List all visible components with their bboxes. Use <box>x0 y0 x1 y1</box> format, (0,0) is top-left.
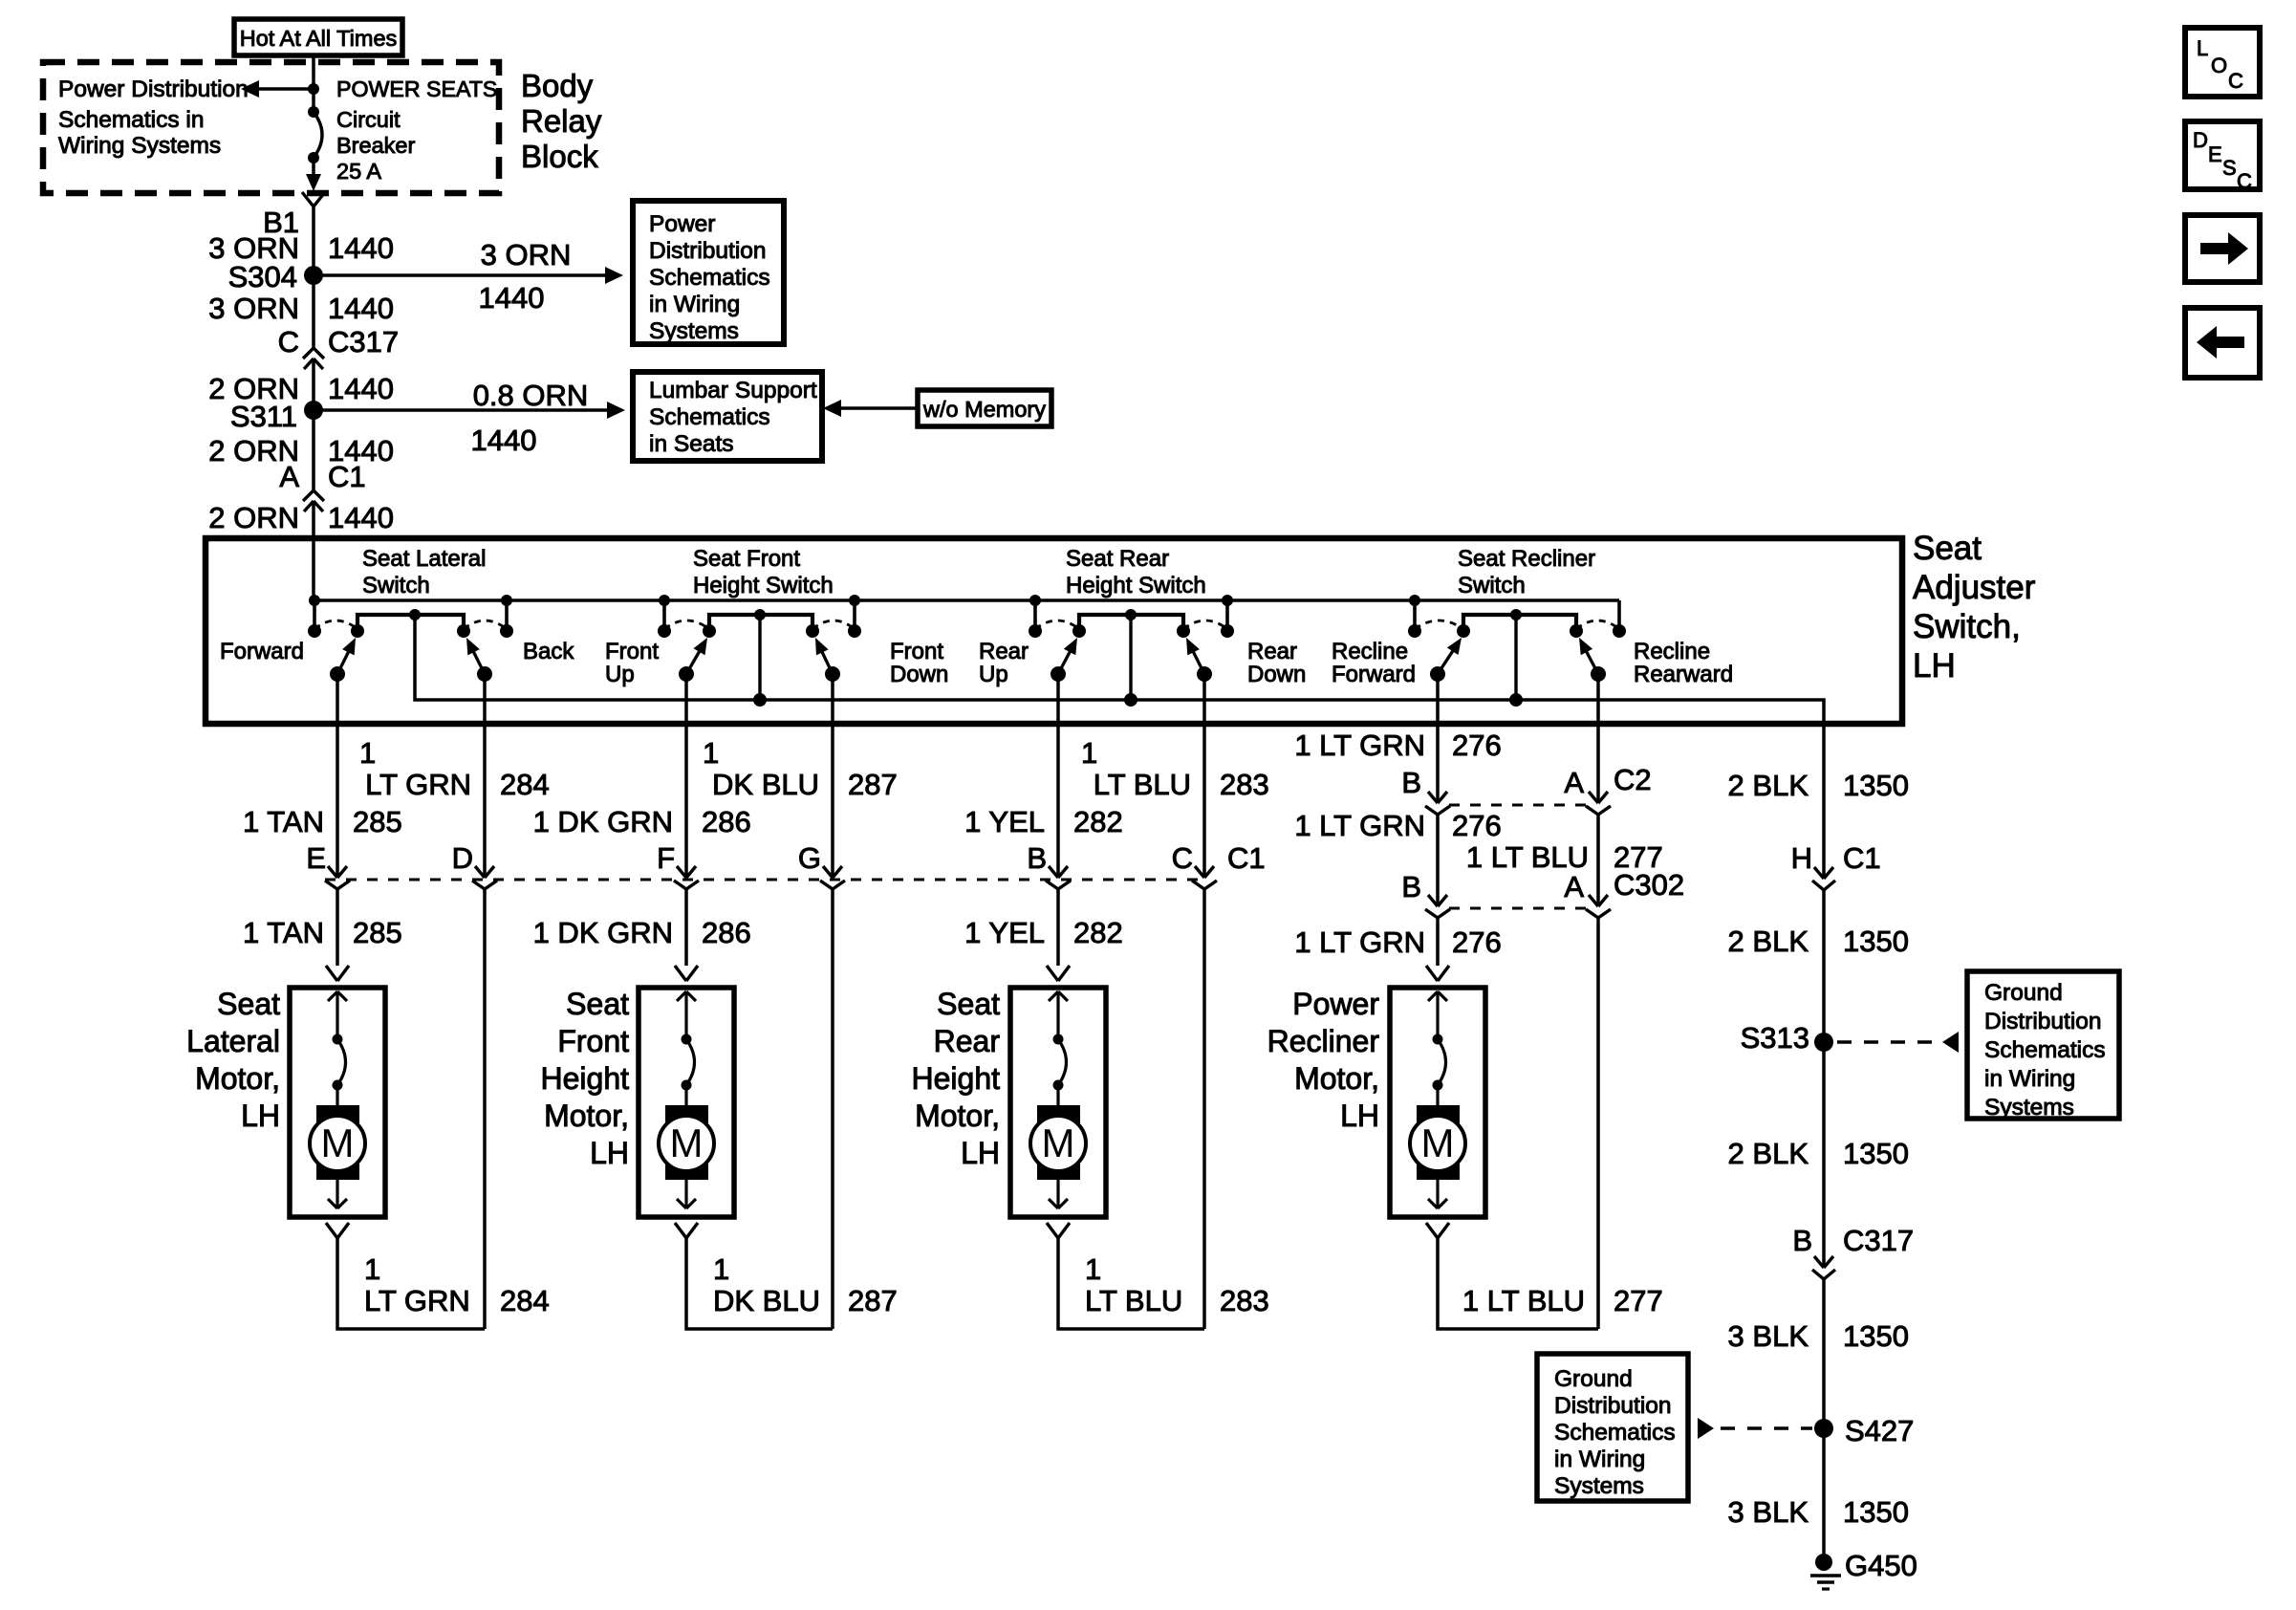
svg-text:A: A <box>1564 870 1584 903</box>
connector C2 dashed line <box>1425 805 1611 815</box>
svg-text:Up: Up <box>605 662 635 687</box>
svg-text:1350: 1350 <box>1843 925 1909 958</box>
seat front height motor LH <box>639 988 734 1217</box>
connector row C1 dashed line <box>325 879 1208 881</box>
svg-text:Seat: Seat <box>217 987 280 1021</box>
svg-text:Power: Power <box>649 211 715 237</box>
wire S304 to Power Distribution schematics <box>314 238 623 315</box>
svg-text:284: 284 <box>500 768 550 801</box>
wire E from switch to connector C1 row <box>328 674 347 878</box>
svg-text:287: 287 <box>848 768 898 801</box>
svg-text:1 LT GRN: 1 LT GRN <box>1294 809 1425 842</box>
label Seat Front Height Switch <box>693 546 834 598</box>
svg-text:1350: 1350 <box>1843 769 1909 802</box>
label 1 DK BLU 287 (motor return) <box>713 1252 898 1317</box>
svg-text:Distribution: Distribution <box>1984 1009 2102 1034</box>
svg-text:in Wiring: in Wiring <box>649 292 740 317</box>
svg-text:C2: C2 <box>1614 763 1652 796</box>
svg-text:S304: S304 <box>228 260 297 294</box>
svg-text:3 ORN: 3 ORN <box>481 238 572 272</box>
svg-text:Motor,: Motor, <box>915 1099 1000 1133</box>
svg-text:C317: C317 <box>328 325 399 359</box>
wire seat front height motor return loop <box>675 1223 833 1329</box>
wire C from switch to connector C1 row <box>1195 674 1214 878</box>
wire B C2 to C302 <box>1428 815 1447 906</box>
svg-text:LT BLU: LT BLU <box>1085 1284 1182 1317</box>
svg-text:B: B <box>1401 766 1421 799</box>
svg-text:3 BLK: 3 BLK <box>1728 1495 1809 1529</box>
svg-text:Wiring Systems: Wiring Systems <box>58 133 221 159</box>
svg-text:Switch: Switch <box>1458 573 1526 598</box>
svg-text:G: G <box>798 841 821 875</box>
seat rear height switch contacts <box>1029 595 1234 707</box>
svg-text:Rearward: Rearward <box>1634 662 1733 687</box>
label Front Up <box>605 639 659 687</box>
svg-text:M: M <box>1042 1120 1075 1165</box>
label 3 BLK 1350 (fourth) <box>1728 1319 1909 1353</box>
svg-text:1 DK GRN: 1 DK GRN <box>533 916 673 949</box>
switch bus (top) <box>314 598 1619 602</box>
svg-text:B: B <box>1401 870 1421 903</box>
svg-text:in Seats: in Seats <box>649 431 734 457</box>
svg-text:Systems: Systems <box>1554 1473 1644 1499</box>
svg-text:S313: S313 <box>1741 1021 1809 1055</box>
svg-text:LH: LH <box>961 1136 1000 1170</box>
wire E to seat lateral motor <box>326 888 349 981</box>
label 3 ORN 1440 (above S304) <box>208 231 394 265</box>
connector C2 labels <box>1401 763 1651 799</box>
svg-text:Rear: Rear <box>934 1024 1001 1058</box>
forward arrow box <box>2185 215 2260 282</box>
svg-text:286: 286 <box>702 805 751 838</box>
svg-text:Systems: Systems <box>1984 1095 2074 1120</box>
svg-text:1 YEL: 1 YEL <box>964 916 1045 949</box>
splice S427 <box>1814 1414 1914 1447</box>
label 1 LT BLU 277 (motor return) <box>1462 1284 1663 1317</box>
svg-text:Ground: Ground <box>1554 1366 1633 1392</box>
label 2 BLK 1350 (second) <box>1728 925 1909 958</box>
svg-text:Seat Recliner: Seat Recliner <box>1458 546 1595 572</box>
label Seat Lateral Switch <box>362 546 486 598</box>
svg-text:Motor,: Motor, <box>1294 1061 1379 1096</box>
svg-text:LT BLU: LT BLU <box>1094 768 1191 801</box>
Hot At All Times box <box>234 19 402 55</box>
svg-text:Lateral: Lateral <box>186 1024 280 1058</box>
svg-text:Rear: Rear <box>979 639 1029 664</box>
label 1 LT GRN 276 (above C2) <box>1294 729 1501 762</box>
label 1 TAN 285 (wire E) <box>243 805 402 838</box>
arrow down to relay block edge <box>306 158 321 191</box>
svg-text:Recline: Recline <box>1332 639 1408 664</box>
svg-text:3 BLK: 3 BLK <box>1728 1319 1809 1353</box>
label Back <box>523 639 574 664</box>
svg-text:1 DK GRN: 1 DK GRN <box>533 805 673 838</box>
svg-text:1350: 1350 <box>1843 1495 1909 1529</box>
svg-text:1 LT BLU: 1 LT BLU <box>1462 1284 1585 1317</box>
svg-text:Recline: Recline <box>1634 639 1710 664</box>
seat adjuster switch LH box <box>206 538 1902 724</box>
svg-text:Down: Down <box>1247 662 1306 687</box>
svg-text:Down: Down <box>890 662 948 687</box>
svg-text:1: 1 <box>713 1252 729 1286</box>
svg-text:w/o Memory: w/o Memory <box>922 397 1046 422</box>
wire F to seat front height motor <box>675 888 698 981</box>
svg-text:B: B <box>1792 1224 1812 1257</box>
svg-text:276: 276 <box>1452 925 1502 959</box>
wire S311 to Lumbar Support schematics <box>314 379 625 457</box>
arrow to Power Distribution Schematics <box>241 80 319 98</box>
svg-text:0.8 ORN: 0.8 ORN <box>473 379 589 412</box>
svg-text:in Wiring: in Wiring <box>1984 1066 2075 1092</box>
Lumbar Support Schematics in Seats box <box>633 372 822 461</box>
svg-text:276: 276 <box>1452 729 1502 762</box>
svg-text:S427: S427 <box>1845 1414 1914 1447</box>
svg-text:2 ORN: 2 ORN <box>208 501 299 534</box>
svg-text:285: 285 <box>353 805 402 838</box>
svg-text:LT GRN: LT GRN <box>364 1284 470 1317</box>
svg-text:O: O <box>2211 54 2227 77</box>
svg-text:1440: 1440 <box>328 372 394 405</box>
svg-text:M: M <box>670 1120 704 1165</box>
connector C1 (H) <box>1791 841 1881 890</box>
label Rear Up <box>979 639 1029 687</box>
circuit breaker POWER SEATS 25 A <box>308 89 322 163</box>
svg-text:287: 287 <box>848 1284 898 1317</box>
seat rear height motor LH <box>1010 988 1106 1217</box>
power recliner motor LH <box>1390 988 1485 1217</box>
label 1 LT GRN 276 (between C2 C302) <box>1294 809 1501 842</box>
label 1 YEL 282 (wire B) <box>964 805 1123 838</box>
svg-text:1440: 1440 <box>328 501 394 534</box>
svg-text:3 ORN: 3 ORN <box>208 292 299 325</box>
svg-text:Forward: Forward <box>220 639 304 664</box>
LOC reference box (top right) <box>2185 28 2260 97</box>
svg-text:1: 1 <box>1085 1252 1101 1286</box>
svg-text:1440: 1440 <box>479 281 545 315</box>
Ground Distribution Schematics in Wiring Systems box (left) <box>1537 1354 1688 1501</box>
svg-text:LT GRN: LT GRN <box>365 768 471 801</box>
svg-text:D: D <box>2193 128 2208 152</box>
splice S313 <box>1741 1021 1833 1055</box>
label POWER SEATS Circuit Breaker 25 A <box>336 76 497 184</box>
label 1 LT GRN 276 (into recliner motor) <box>1294 925 1501 959</box>
svg-text:C: C <box>278 325 299 359</box>
splice S311 <box>230 400 323 433</box>
svg-text:1: 1 <box>359 736 376 770</box>
svg-text:Front: Front <box>557 1024 629 1058</box>
svg-text:C317: C317 <box>1843 1224 1914 1257</box>
label 2 ORN 1440 (below S311) <box>208 434 394 468</box>
label B1 <box>263 206 299 239</box>
label Rear Down <box>1247 639 1306 687</box>
svg-text:282: 282 <box>1073 805 1123 838</box>
wire D from switch to connector C1 row <box>475 674 494 878</box>
label Seat Rear Height Switch <box>1066 546 1206 598</box>
svg-text:Seat Front: Seat Front <box>693 546 800 572</box>
Body Relay Block dashed box <box>43 62 499 193</box>
svg-text:285: 285 <box>353 916 402 949</box>
connector pin C label + fork <box>1172 841 1217 889</box>
svg-text:Motor,: Motor, <box>544 1099 629 1133</box>
switch lower bus to ground <box>415 615 1824 724</box>
wire B to seat rear height motor <box>1047 888 1070 981</box>
svg-text:LH: LH <box>241 1099 280 1133</box>
svg-text:H: H <box>1791 841 1812 875</box>
svg-text:E: E <box>2208 142 2222 166</box>
Ground Distribution Schematics in Wiring Systems box (right) <box>1967 971 2119 1120</box>
svg-text:Switch,: Switch, <box>1913 608 2021 645</box>
svg-text:Height: Height <box>912 1061 1001 1096</box>
svg-text:283: 283 <box>1220 768 1269 801</box>
svg-text:Power Distribution: Power Distribution <box>58 76 249 102</box>
label Seat Lateral Motor LH <box>186 987 280 1133</box>
connector C317 (B) <box>1792 1224 1914 1279</box>
label Power Recliner Motor LH <box>1267 987 1380 1133</box>
label Seat Adjuster Switch LH <box>1913 530 2036 685</box>
svg-text:B: B <box>1027 841 1047 875</box>
svg-text:Distribution: Distribution <box>1554 1393 1672 1419</box>
svg-text:1440: 1440 <box>328 292 394 325</box>
svg-text:Height: Height <box>541 1061 630 1096</box>
connector C302 dashed line <box>1425 908 1611 918</box>
svg-text:2 BLK: 2 BLK <box>1728 1137 1809 1170</box>
dashed reference S313 to ground distribution <box>1837 1032 1959 1053</box>
wire B into power recliner motor <box>1426 918 1449 981</box>
svg-text:Forward: Forward <box>1332 662 1416 687</box>
svg-text:Recliner: Recliner <box>1267 1024 1380 1058</box>
label 1 LT BLU 277 (wire A) <box>1466 840 1663 874</box>
svg-text:G450: G450 <box>1845 1549 1917 1582</box>
svg-text:Systems: Systems <box>649 318 739 344</box>
svg-text:Schematics: Schematics <box>649 404 770 430</box>
svg-text:F: F <box>657 841 675 875</box>
connector pin E label + fork <box>306 841 350 889</box>
svg-text:Seat Lateral: Seat Lateral <box>362 546 486 572</box>
label 3 ORN 1440 (below S304) <box>208 292 394 325</box>
svg-text:LH: LH <box>590 1136 629 1170</box>
svg-text:2 BLK: 2 BLK <box>1728 925 1809 958</box>
wire seat rear height motor return loop <box>1047 1223 1204 1329</box>
wire recliner A down to C2 <box>1589 674 1608 803</box>
connector pin D label + fork <box>452 841 497 889</box>
label Seat Rear Height Motor LH <box>912 987 1001 1170</box>
svg-text:Seat: Seat <box>566 987 629 1021</box>
svg-text:25 A: 25 A <box>336 159 381 184</box>
svg-text:S: S <box>2222 156 2237 180</box>
svg-text:277: 277 <box>1614 1284 1663 1317</box>
ground G450 <box>1810 1549 1917 1589</box>
svg-text:1 LT BLU: 1 LT BLU <box>1466 840 1589 874</box>
svg-text:Adjuster: Adjuster <box>1913 569 2036 606</box>
svg-text:Distribution: Distribution <box>649 238 767 264</box>
svg-text:M: M <box>1421 1120 1455 1165</box>
svg-text:1 YEL: 1 YEL <box>964 805 1045 838</box>
label Power Distribution Schematics in Wiring Systems (in relay block) <box>58 76 249 159</box>
Power Distribution Schematics in Wiring Systems box <box>633 201 784 344</box>
ground wire from switch box <box>1822 724 1826 1562</box>
splice S304 <box>228 260 323 294</box>
wire C down to loop <box>1202 888 1206 1329</box>
svg-text:Relay: Relay <box>521 103 602 139</box>
seat lateral motor LH <box>290 988 385 1217</box>
svg-text:Front: Front <box>890 639 943 664</box>
label 2 ORN 1440 (into switch) <box>208 501 394 534</box>
svg-text:Motor,: Motor, <box>195 1061 280 1096</box>
svg-text:M: M <box>321 1120 355 1165</box>
wire G from switch to connector C1 row <box>823 674 842 878</box>
backward arrow box <box>2185 308 2260 378</box>
svg-text:Lumbar Support: Lumbar Support <box>649 378 817 403</box>
wire from Hot At All Times into relay block <box>312 55 315 89</box>
wire B from switch to connector C1 row <box>1049 674 1068 878</box>
connector C302 labels <box>1401 868 1684 903</box>
svg-text:C1: C1 <box>328 460 366 493</box>
svg-text:282: 282 <box>1073 916 1123 949</box>
label 2 ORN 1440 (above S311) <box>208 372 394 405</box>
svg-text:1350: 1350 <box>1843 1137 1909 1170</box>
label Recline Rearward <box>1634 639 1733 687</box>
label 1 LT BLU 283 (motor return) <box>1085 1252 1269 1317</box>
connector pin G label + fork <box>798 841 845 889</box>
svg-text:DK BLU: DK BLU <box>713 1284 820 1317</box>
svg-text:Seat: Seat <box>1913 530 1982 567</box>
svg-text:1: 1 <box>1081 736 1097 770</box>
svg-text:276: 276 <box>1452 809 1502 842</box>
wire B1 feed <box>312 207 315 601</box>
svg-text:286: 286 <box>702 916 751 949</box>
seat front height switch contacts <box>658 595 861 707</box>
svg-text:1: 1 <box>703 736 719 770</box>
label Front Down <box>890 639 948 687</box>
svg-text:D: D <box>452 841 473 875</box>
wire seat lateral motor return loop <box>326 1223 485 1329</box>
svg-text:POWER SEATS: POWER SEATS <box>336 76 497 101</box>
svg-text:2 BLK: 2 BLK <box>1728 769 1809 802</box>
svg-text:1 TAN: 1 TAN <box>243 916 324 949</box>
svg-text:S311: S311 <box>230 400 297 433</box>
svg-text:A: A <box>279 460 299 493</box>
wire D down to loop <box>483 888 487 1329</box>
svg-text:284: 284 <box>500 1284 550 1317</box>
svg-text:Schematics: Schematics <box>1554 1420 1676 1446</box>
svg-text:C: C <box>2228 69 2243 93</box>
svg-text:Body: Body <box>521 68 594 103</box>
svg-text:Schematics in: Schematics in <box>58 107 205 133</box>
svg-text:Breaker: Breaker <box>336 133 415 158</box>
label 1 LT BLU 283 (wire C) <box>1081 736 1269 801</box>
svg-text:Schematics: Schematics <box>1984 1037 2106 1063</box>
svg-text:Rear: Rear <box>1247 639 1297 664</box>
svg-text:1440: 1440 <box>328 231 394 265</box>
svg-text:Seat: Seat <box>937 987 1000 1021</box>
label C1 (connector row) <box>1227 841 1266 875</box>
label 3 BLK 1350 (fifth) <box>1728 1495 1909 1529</box>
svg-text:LH: LH <box>1340 1099 1379 1133</box>
connector pin F label + fork <box>657 841 699 889</box>
svg-text:Back: Back <box>523 639 574 664</box>
svg-text:Height Switch: Height Switch <box>1066 573 1206 598</box>
svg-text:Hot At All Times: Hot At All Times <box>240 26 398 51</box>
svg-text:DK BLU: DK BLU <box>712 768 819 801</box>
wire A down to loop <box>1596 918 1600 1329</box>
label Seat Recliner Switch <box>1458 546 1595 598</box>
svg-text:Height Switch: Height Switch <box>693 573 834 598</box>
svg-text:1440: 1440 <box>471 424 537 457</box>
w/o Memory box <box>918 390 1051 426</box>
wire recliner B down to C2 <box>1428 674 1447 803</box>
seat lateral switch contacts <box>308 595 513 682</box>
connector C317 (C) <box>278 325 400 369</box>
wire G down to loop <box>831 888 834 1329</box>
svg-text:E: E <box>306 841 326 875</box>
svg-text:C1: C1 <box>1227 841 1266 875</box>
arrow w/o Memory to Lumbar box <box>823 400 918 417</box>
DESC reference box <box>2185 121 2260 193</box>
seat recliner switch contacts <box>1408 595 1626 707</box>
label 1 TAN 285 (below row, wire E) <box>243 916 402 949</box>
wire F from switch to connector C1 row <box>677 674 696 878</box>
svg-text:Ground: Ground <box>1984 980 2063 1006</box>
label Seat Front Height Motor LH <box>541 987 630 1170</box>
svg-text:Schematics: Schematics <box>649 265 770 291</box>
label 1 YEL 282 (below row, wire B) <box>964 916 1123 949</box>
svg-text:1350: 1350 <box>1843 1319 1909 1353</box>
svg-text:C1: C1 <box>1843 841 1881 875</box>
label 2 BLK 1350 (third) <box>1728 1137 1909 1170</box>
svg-text:1: 1 <box>364 1252 380 1286</box>
wire A C2 to C302 <box>1589 815 1608 906</box>
label Recline Forward <box>1332 639 1416 687</box>
svg-text:1 LT GRN: 1 LT GRN <box>1294 925 1425 959</box>
svg-text:283: 283 <box>1220 1284 1269 1317</box>
connector C1 (A) <box>279 460 365 511</box>
dashed reference to splice S427 <box>1698 1418 1812 1439</box>
svg-text:1 LT GRN: 1 LT GRN <box>1294 729 1425 762</box>
label 1 DK GRN 286 (below row, wire F) <box>533 916 751 949</box>
svg-text:Block: Block <box>521 139 598 174</box>
connector pin B label + fork <box>1027 841 1071 889</box>
connector fork below relay block <box>302 192 325 207</box>
svg-text:in Wiring: in Wiring <box>1554 1447 1645 1472</box>
label 1 DK GRN 286 (wire F) <box>533 805 751 838</box>
svg-text:Power: Power <box>1292 987 1379 1021</box>
svg-text:L: L <box>2197 36 2208 60</box>
label 2 BLK 1350 (top) <box>1728 769 1909 802</box>
svg-text:Seat Rear: Seat Rear <box>1066 546 1169 572</box>
label 1 LT GRN 284 (motor return) <box>364 1252 550 1317</box>
svg-text:Switch: Switch <box>362 573 430 598</box>
label 1 DK BLU 287 (wire G) <box>703 736 898 801</box>
svg-text:1 TAN: 1 TAN <box>243 805 324 838</box>
svg-text:C302: C302 <box>1614 868 1684 902</box>
svg-text:A: A <box>1564 766 1584 799</box>
label Forward <box>220 639 304 664</box>
svg-text:Front: Front <box>605 639 659 664</box>
svg-text:Circuit: Circuit <box>336 107 401 132</box>
svg-text:LH: LH <box>1913 647 1956 685</box>
svg-text:C: C <box>1172 841 1193 875</box>
wire power recliner motor return loop <box>1426 1223 1598 1329</box>
svg-text:Up: Up <box>979 662 1008 687</box>
svg-text:C: C <box>2237 169 2252 193</box>
label Body Relay Block <box>521 68 602 174</box>
label 1 LT GRN 284 (wire D) <box>359 736 550 801</box>
